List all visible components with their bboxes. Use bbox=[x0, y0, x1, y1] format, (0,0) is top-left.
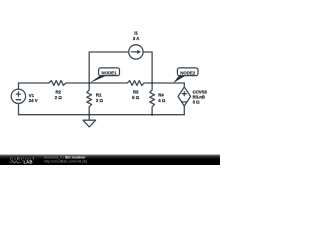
svg-text:2 Ω: 2 Ω bbox=[55, 95, 63, 100]
svg-text:R2: R2 bbox=[56, 90, 62, 95]
svg-text:24 V: 24 V bbox=[29, 98, 38, 103]
svg-text:2 Ω: 2 Ω bbox=[96, 98, 104, 103]
svg-text:5 Ω: 5 Ω bbox=[132, 95, 140, 100]
svg-text:3 A: 3 A bbox=[133, 36, 140, 41]
svg-text:NODE2: NODE2 bbox=[180, 70, 196, 75]
svg-text:NODE1: NODE1 bbox=[102, 70, 118, 75]
svg-text:http://circuitlab.com/c41o6j: http://circuitlab.com/c41o6j bbox=[44, 160, 87, 164]
svg-text:4 Ω: 4 Ω bbox=[158, 98, 166, 103]
svg-text:3 Ω: 3 Ω bbox=[193, 100, 201, 105]
svg-text:R3: R3 bbox=[133, 90, 139, 95]
svg-text:LAB: LAB bbox=[24, 160, 33, 165]
svg-text:I1: I1 bbox=[134, 30, 138, 35]
